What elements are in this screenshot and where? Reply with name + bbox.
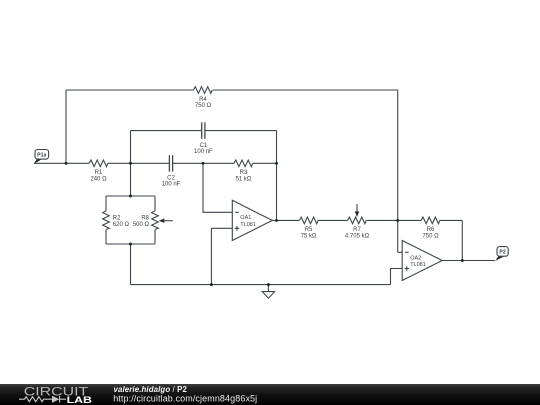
wire OA1 output to R5 bbox=[272, 219, 299, 221]
wire R6 to corner bbox=[440, 219, 463, 221]
junction dots bbox=[65, 162, 464, 286]
svg-text:75 kΩ: 75 kΩ bbox=[301, 234, 317, 240]
wire main P1a to R1 bbox=[34, 162, 89, 164]
svg-text:500 Ω: 500 Ω bbox=[133, 222, 150, 228]
logo resistor-diode squiggle bbox=[19, 396, 66, 403]
wire bottom rail bbox=[131, 284, 391, 286]
wire R7 to R6 bbox=[366, 219, 421, 221]
wire box bottom bbox=[106, 243, 155, 245]
svg-text:TL081: TL081 bbox=[240, 222, 256, 228]
node C2/R3/minus junction bbox=[202, 162, 205, 165]
resistor R6 bbox=[421, 217, 440, 224]
node input/R1 junction bbox=[65, 162, 68, 165]
wire box right edge lower bbox=[154, 230, 156, 244]
wire C2 to R3 bbox=[173, 162, 234, 164]
svg-text:R2: R2 bbox=[113, 216, 121, 222]
node OA1 output junction bbox=[275, 219, 278, 222]
svg-text:R5: R5 bbox=[305, 227, 313, 233]
wire box to bottom rail bbox=[130, 244, 132, 285]
R8 wiper arrow line bbox=[164, 220, 173, 222]
wire R5 to R7 bbox=[318, 219, 348, 221]
svg-text:TL081: TL081 bbox=[410, 262, 426, 268]
svg-text:R3: R3 bbox=[240, 170, 248, 176]
svg-text:240 Ω: 240 Ω bbox=[90, 177, 107, 183]
node OA1 plus on rail bbox=[210, 283, 213, 286]
svg-text:750 Ω: 750 Ω bbox=[195, 103, 212, 109]
svg-text:R4: R4 bbox=[199, 97, 207, 103]
wire box left edge upper bbox=[105, 196, 107, 211]
svg-text:R8: R8 bbox=[141, 216, 149, 222]
resistor R8 vertical bbox=[152, 211, 159, 230]
svg-text:R7: R7 bbox=[353, 227, 361, 233]
wire box left edge lower bbox=[105, 230, 107, 244]
svg-text:C2: C2 bbox=[167, 176, 175, 182]
svg-text:R1: R1 bbox=[95, 170, 103, 176]
wire box right edge upper bbox=[154, 196, 156, 211]
wire right vertical from top to OA2 minus bbox=[397, 90, 399, 252]
wire OA2 output to P2 bbox=[442, 260, 495, 262]
labels bbox=[90, 97, 439, 240]
wire C1 row left bbox=[131, 130, 202, 132]
node R3 right junction bbox=[275, 162, 278, 165]
svg-text:C1: C1 bbox=[200, 143, 208, 149]
wire C1 right vertical down to OA1 output bbox=[276, 131, 278, 221]
wire node down to R2R8 box bbox=[130, 163, 132, 196]
svg-text:51 kΩ: 51 kΩ bbox=[236, 177, 252, 183]
svg-text:valerie.hidalgo / P2: valerie.hidalgo / P2 bbox=[114, 385, 188, 394]
svg-text:LAB: LAB bbox=[67, 395, 92, 405]
svg-text:OA1: OA1 bbox=[240, 215, 251, 221]
svg-text:100 nF: 100 nF bbox=[194, 149, 213, 155]
capacitor C1 plates bbox=[202, 122, 205, 138]
svg-text:4.705 kΩ: 4.705 kΩ bbox=[345, 234, 370, 240]
svg-text:620 Ω: 620 Ω bbox=[113, 222, 130, 228]
R7 wiper arrow line bbox=[356, 204, 358, 212]
wire C1 left vertical bbox=[130, 131, 132, 164]
resistor R5 bbox=[299, 217, 318, 224]
wire R1 to C2 bbox=[108, 162, 170, 164]
logo diode triangle bbox=[52, 396, 59, 403]
resistor R2 vertical bbox=[103, 211, 110, 230]
node ground on rail bbox=[267, 283, 270, 286]
svg-text:http://circuitlab.com/cjemn84g: http://circuitlab.com/cjemn84g86x5j bbox=[113, 394, 257, 404]
node box bottom junction bbox=[129, 243, 132, 246]
ground triangle bbox=[262, 292, 274, 299]
node OA2 output junction bbox=[461, 259, 464, 262]
wire R3 to node bbox=[253, 162, 277, 164]
resistor R7 bbox=[348, 217, 367, 224]
node R1/C2/box junction bbox=[129, 162, 132, 165]
svg-text:R6: R6 bbox=[427, 227, 435, 233]
wire OA1 plus branch bbox=[211, 228, 232, 284]
wire corner down to OA2 output bbox=[461, 220, 463, 260]
R7 wiper arrowhead bbox=[355, 211, 360, 217]
node R7/R4/R6 junction bbox=[396, 219, 399, 222]
wire top horizontal right of R4 bbox=[213, 89, 398, 91]
capacitor C2 plates bbox=[169, 155, 172, 171]
R8 wiper arrowhead bbox=[159, 218, 165, 223]
svg-text:P1a: P1a bbox=[37, 153, 46, 159]
svg-text:P2: P2 bbox=[499, 250, 505, 256]
op-amp OA1 bbox=[232, 200, 272, 240]
op-amp OA2 bbox=[402, 241, 442, 281]
node box top junction bbox=[129, 195, 132, 198]
port P1a bbox=[34, 150, 49, 164]
wire node down to OA1 minus bbox=[203, 163, 232, 212]
ground stem bbox=[267, 285, 269, 292]
resistor R1 bbox=[89, 160, 108, 167]
footer bar bbox=[0, 384, 540, 405]
wire box top bbox=[106, 195, 155, 197]
resistor R3 bbox=[234, 160, 253, 167]
port P2 bbox=[495, 247, 508, 261]
wire left vertical input to top bbox=[65, 90, 67, 163]
svg-text:100 nF: 100 nF bbox=[162, 182, 181, 188]
svg-text:OA2: OA2 bbox=[410, 255, 421, 261]
svg-text:750 Ω: 750 Ω bbox=[422, 234, 439, 240]
wire top horizontal left of R4 bbox=[66, 89, 194, 91]
wire C1 row right bbox=[205, 130, 277, 132]
resistor R4 bbox=[194, 87, 213, 94]
wire OA2 minus stub bbox=[398, 251, 403, 253]
wire OA2 plus branch bbox=[391, 269, 403, 285]
